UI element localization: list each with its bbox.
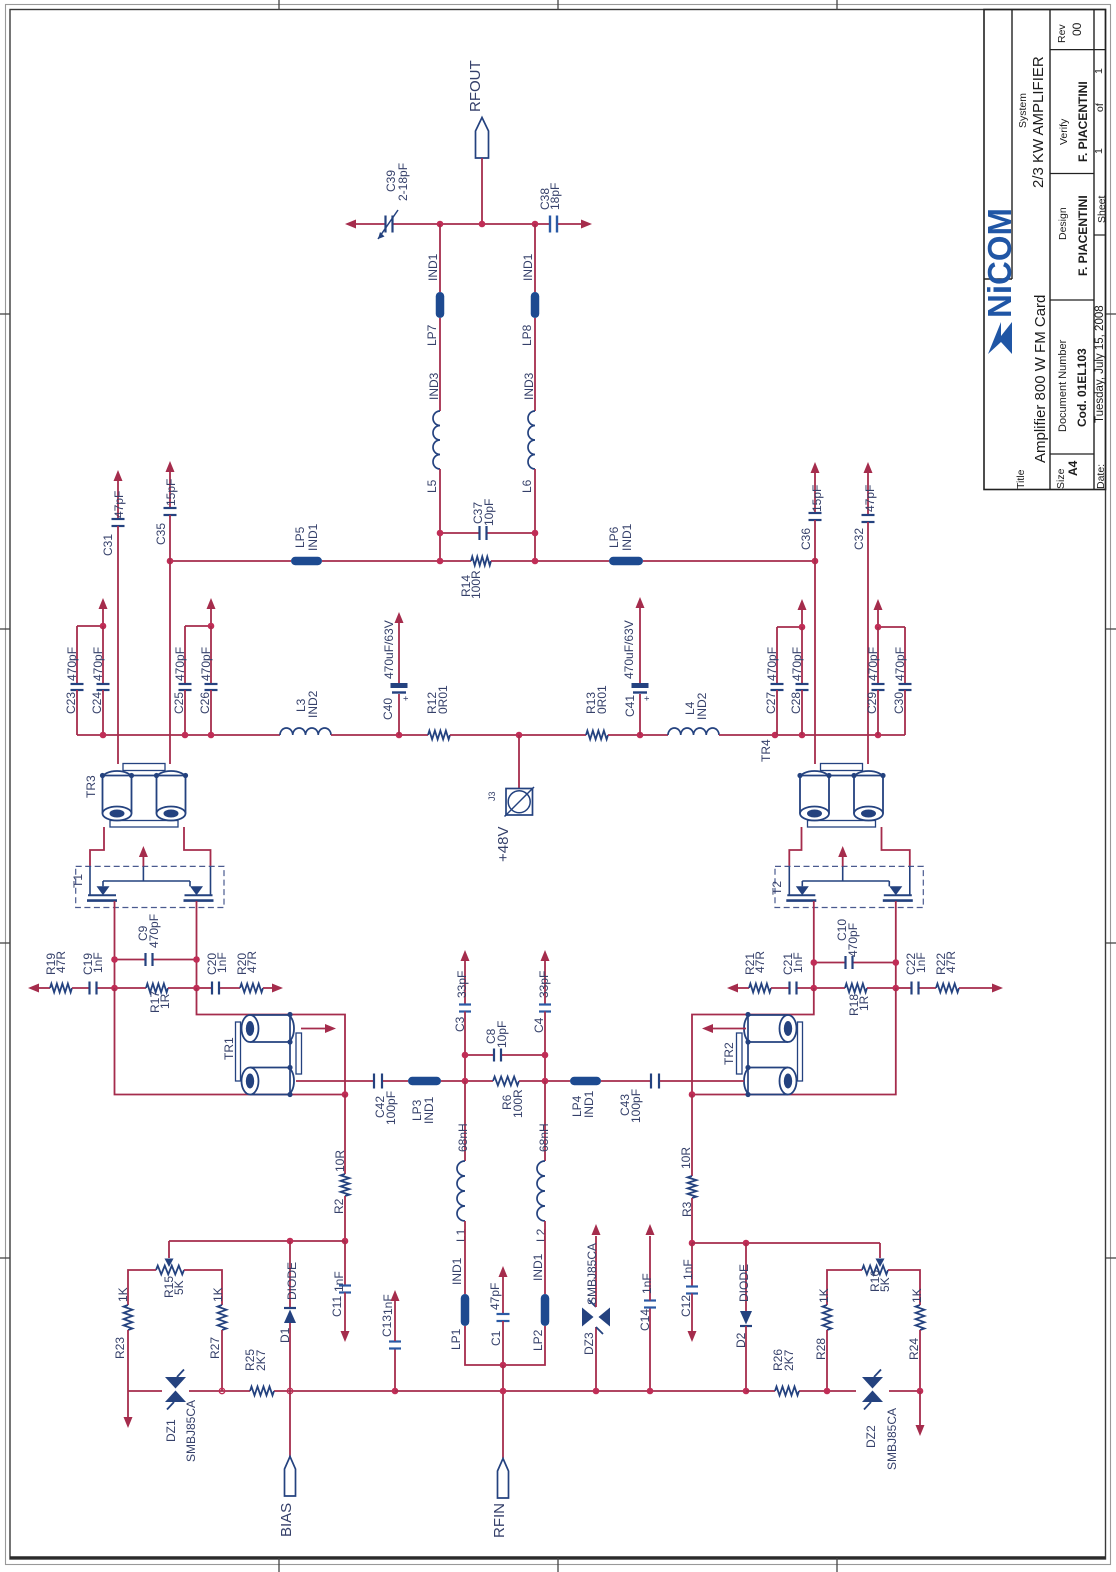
inductor LP8 IND1 — [520, 253, 539, 346]
inductor LP7 IND1 — [425, 253, 444, 346]
inductor L2 68nH — [534, 1123, 551, 1242]
svg-text:47pF: 47pF — [863, 485, 877, 512]
svg-text:1K: 1K — [817, 1288, 831, 1303]
wire L5 lower — [439, 469, 441, 561]
connector BIAS — [278, 1457, 296, 1538]
svg-text:0R01: 0R01 — [595, 685, 609, 714]
resistor R19 47R — [37, 951, 72, 993]
svg-text:LP1: LP1 — [449, 1328, 463, 1350]
svg-text:Document Number: Document Number — [1057, 339, 1069, 432]
svg-text:A4: A4 — [1066, 460, 1080, 476]
capacitor C1 47pF — [488, 1276, 510, 1365]
svg-text:LP2: LP2 — [531, 1329, 545, 1351]
junction dots C37 bridge — [437, 530, 444, 537]
svg-text:1K: 1K — [211, 1287, 225, 1302]
svg-text:68nH: 68nH — [456, 1123, 470, 1152]
power arrow C4 — [541, 950, 550, 961]
svg-text:IND1: IND1 — [450, 1257, 464, 1285]
resistor R18 1R — [814, 984, 896, 1016]
svg-text:SMBJ85CA: SMBJ85CA — [585, 1243, 599, 1305]
svg-text:47R: 47R — [753, 951, 767, 973]
resistor R12 0R01 — [425, 685, 450, 739]
svg-text:Sheet: Sheet — [1096, 195, 1108, 223]
svg-text:of: of — [1094, 103, 1106, 112]
svg-text:F. PIACENTINI: F. PIACENTINI — [1076, 81, 1090, 162]
transformer TR3 — [84, 764, 188, 828]
svg-text:100pF: 100pF — [384, 1091, 398, 1125]
svg-text:Verify: Verify — [1058, 118, 1070, 145]
connector RFIN — [491, 1459, 509, 1539]
svg-text:470pF: 470pF — [147, 914, 161, 948]
node left row arrow W — [28, 984, 39, 993]
wire T1 left source to TR1 bottom — [115, 988, 346, 1095]
wire L5 branch upper — [439, 224, 441, 292]
wire LP2 to input node — [503, 1326, 545, 1365]
wire TR3 to T1 gates — [90, 827, 211, 866]
svg-text:IND3: IND3 — [427, 372, 441, 400]
junction dot D2 top — [743, 1240, 750, 1247]
wire RFIN stem — [502, 1365, 504, 1458]
svg-text:C3: C3 — [453, 1016, 467, 1032]
power arrow T1 drain — [139, 846, 148, 866]
capacitor C20 1nF — [197, 952, 241, 994]
svg-text:470pF: 470pF — [790, 647, 804, 681]
svg-text:LP5: LP5 — [293, 526, 307, 548]
wire C27 C28 top link — [777, 627, 802, 684]
svg-text:Tuesday, July 15, 2008: Tuesday, July 15, 2008 — [1094, 305, 1106, 423]
svg-text:+: + — [642, 696, 652, 701]
junction dot C13 — [392, 1388, 399, 1395]
svg-text:1nF: 1nF — [914, 952, 928, 973]
svg-text:15pF: 15pF — [810, 485, 824, 512]
wire C25 C26 top link — [185, 626, 211, 684]
capacitor C12 1nF — [679, 1243, 698, 1331]
svg-text:SMBJ85CA: SMBJ85CA — [885, 1408, 899, 1470]
power arrow C32 — [864, 462, 873, 473]
capacitor C22 1nF — [896, 952, 936, 994]
resistor R13 0R01 — [584, 685, 609, 739]
capacitor C21 1nF — [771, 952, 814, 994]
node TR1 tap arrow — [301, 1024, 336, 1033]
svg-text:47R: 47R — [944, 951, 958, 973]
wire T1 right source to TR1 top — [197, 988, 346, 1095]
wire L6 lower — [534, 469, 536, 561]
svg-text:470uF/63V: 470uF/63V — [382, 620, 396, 679]
inductor LP3 IND1 — [408, 1077, 441, 1124]
wire T2 left source to TR2 top — [692, 988, 814, 1095]
transformer TR2 — [722, 1012, 803, 1097]
svg-text:10R: 10R — [679, 1147, 693, 1169]
power arrow C35 — [166, 461, 175, 472]
svg-text:NiCOM: NiCOM — [981, 208, 1018, 318]
capacitor C9 470pF — [115, 914, 197, 966]
svg-text:C24: C24 — [90, 692, 104, 714]
svg-text:DZ3: DZ3 — [582, 1332, 596, 1355]
svg-text:2K7: 2K7 — [782, 1349, 796, 1371]
capacitor C39 2-18pF trimmer — [378, 163, 410, 239]
power arrow C36 — [811, 462, 820, 473]
wire C36 to TR4 — [814, 520, 816, 764]
svg-text:RFIN: RFIN — [491, 1503, 508, 1538]
wire C35 to TR3 — [169, 515, 171, 764]
svg-text:C12: C12 — [679, 1295, 693, 1317]
svg-text:47pF: 47pF — [488, 1283, 502, 1310]
svg-text:470pF: 470pF — [91, 647, 105, 681]
svg-text:DZ1: DZ1 — [164, 1419, 178, 1442]
node R27 bottom ring — [219, 1388, 224, 1393]
junction dots C9 row — [111, 956, 118, 963]
svg-text:Design: Design — [1057, 207, 1069, 240]
junction dot R24 bottom — [917, 1388, 924, 1395]
wire zener bus right — [746, 1390, 920, 1392]
wire T1 left source — [114, 901, 116, 988]
power arrow C31 — [114, 470, 123, 481]
svg-text:SMBJ85CA: SMBJ85CA — [184, 1400, 198, 1462]
capacitor C23 470pF — [64, 647, 84, 735]
power arrow C3 — [461, 950, 470, 961]
capacitor C42 100pF — [373, 1074, 398, 1126]
capacitor C31 47pF — [101, 480, 126, 556]
svg-text:DIODE: DIODE — [285, 1262, 299, 1300]
svg-text:470pF: 470pF — [173, 647, 187, 681]
svg-text:RFOUT: RFOUT — [467, 60, 484, 112]
resistor R2 10R — [332, 1095, 349, 1242]
junction dot C26 top — [208, 623, 215, 630]
svg-text:T2: T2 — [770, 881, 784, 895]
wire C29 C30 top link — [878, 627, 905, 684]
wire R12 to R13 — [450, 734, 586, 736]
svg-text:C11: C11 — [330, 1296, 344, 1317]
wire L1 to LP1 — [464, 1221, 466, 1294]
svg-text:C27: C27 — [764, 692, 778, 714]
svg-text:Amplifier 800 W FM Card: Amplifier 800 W FM Card — [1032, 295, 1049, 463]
inductor LP6 IND1 — [607, 523, 643, 565]
wire C23 C24 top link — [77, 626, 103, 684]
svg-text:IND1: IND1 — [521, 253, 535, 281]
svg-text:33pF: 33pF — [455, 971, 469, 998]
capacitor C29 470pF — [865, 627, 885, 735]
inductor L3 IND2 — [280, 690, 331, 735]
svg-text:1K: 1K — [116, 1287, 130, 1302]
junction dot C29 top — [875, 624, 882, 631]
wire LP8 to L6 — [534, 318, 536, 411]
power arrow C12 down — [688, 1331, 697, 1342]
capacitor C40 470uF/63V — [381, 620, 411, 735]
svg-text:L6: L6 — [520, 479, 534, 493]
wire C37 bridge — [440, 532, 535, 534]
svg-text:100R: 100R — [469, 570, 483, 599]
wire drain bus left — [170, 560, 471, 562]
resistor R17 1R — [115, 984, 197, 1013]
zener DZ3 SMBJ85CA — [582, 1236, 610, 1391]
power arrow left bias down — [124, 1391, 133, 1428]
wire L2 to LP2 — [544, 1221, 546, 1294]
svg-text:IND1: IND1 — [531, 1253, 545, 1281]
svg-text:C14: C14 — [638, 1309, 652, 1331]
zener DZ2 SMBJ85CA — [862, 1370, 899, 1471]
junction dot DZ3 — [593, 1388, 600, 1395]
svg-text:TR2: TR2 — [722, 1042, 736, 1065]
capacitor C28 470pF — [789, 627, 809, 735]
wire R14 to LP6 — [491, 560, 609, 562]
capacitor C3 33pF — [453, 960, 471, 1055]
capacitor C36 15pF — [799, 472, 824, 550]
wire C32 to TR4 — [867, 522, 869, 764]
transformer TR1 — [222, 1012, 302, 1097]
svg-text:1: 1 — [1093, 148, 1105, 154]
junction dots supply bus — [100, 732, 107, 739]
svg-text:C28: C28 — [789, 692, 803, 714]
svg-text:Date:: Date: — [1095, 464, 1107, 489]
svg-text:C26: C26 — [198, 692, 212, 714]
resistor R21 47R — [736, 951, 771, 993]
capacitor C32 47pF — [852, 472, 877, 550]
svg-text:10pF: 10pF — [482, 499, 496, 526]
wire LP3 to R6 — [441, 1080, 493, 1082]
node BIAS ring — [287, 1388, 292, 1393]
resistor R27 1K — [208, 1287, 226, 1391]
svg-text:J3: J3 — [487, 791, 497, 801]
svg-text:C35: C35 — [154, 523, 168, 545]
wire zener bus center — [395, 1390, 746, 1392]
svg-text:1nF: 1nF — [215, 952, 229, 973]
inductor LP5 IND1 — [291, 523, 322, 565]
power arrow C26 top — [207, 598, 216, 626]
junction dot TR1 output — [342, 1091, 349, 1098]
power arrow C1 — [499, 1266, 508, 1277]
resistor R20 47R — [235, 951, 279, 993]
wire bias top right — [692, 1242, 880, 1244]
resistor R6 100R — [493, 1077, 525, 1118]
svg-text:LP6: LP6 — [607, 526, 621, 548]
svg-text:IND1: IND1 — [426, 253, 440, 281]
junction dots drain bus — [167, 558, 174, 565]
connector J3 +48V — [487, 735, 534, 862]
svg-text:+48V: +48V — [495, 827, 512, 862]
svg-text:C31: C31 — [101, 534, 115, 556]
junction dot TR2 output — [689, 1091, 696, 1098]
resistor R24 1K — [907, 1288, 924, 1391]
svg-text:2-18pF: 2-18pF — [396, 163, 410, 201]
svg-text:470uF/63V: 470uF/63V — [622, 620, 636, 679]
svg-text:TR1: TR1 — [222, 1037, 236, 1060]
power arrow DZ3 up — [592, 1224, 601, 1235]
svg-text:1nF: 1nF — [791, 952, 805, 973]
wire BIAS stem — [289, 1391, 291, 1457]
wire C43 to TR2 — [660, 1080, 744, 1082]
inductor L5 IND3 — [425, 372, 441, 493]
svg-text:470pF: 470pF — [846, 923, 860, 957]
inductor L4 IND2 — [668, 692, 719, 735]
svg-text:T1: T1 — [71, 874, 85, 888]
title block — [984, 10, 1106, 490]
svg-text:L2: L2 — [534, 1228, 548, 1242]
inductor L1 68nH — [454, 1123, 470, 1242]
wire R6 node to L1 — [464, 1081, 466, 1161]
node left row arrow E — [272, 984, 283, 993]
wire R13 to L4 — [608, 734, 668, 736]
svg-text:C25: C25 — [172, 692, 186, 714]
resistor R25 2K7 — [243, 1349, 274, 1396]
resistor R23 1K — [113, 1287, 132, 1391]
svg-text:R27: R27 — [208, 1337, 222, 1359]
junction dot D2 bottom — [743, 1388, 750, 1395]
svg-text:D1: D1 — [278, 1327, 292, 1343]
svg-text:10R: 10R — [333, 1150, 347, 1172]
resistor R26 2K7 — [771, 1349, 799, 1396]
svg-text:IND2: IND2 — [695, 692, 709, 720]
svg-text:R24: R24 — [907, 1338, 921, 1360]
junction dots output bus — [437, 221, 444, 228]
diode D1 — [278, 1241, 299, 1391]
diode D2 — [734, 1243, 752, 1391]
svg-text:5K: 5K — [878, 1277, 892, 1292]
wire R15 left to R23 — [128, 1270, 156, 1305]
wire R16 left to R28 — [827, 1270, 862, 1305]
power arrow C24 top — [99, 598, 108, 626]
svg-text:1nF: 1nF — [332, 1271, 346, 1292]
svg-text:1R: 1R — [857, 995, 871, 1011]
svg-text:470pF: 470pF — [866, 647, 880, 681]
wire C3 node to R6 node — [464, 1055, 466, 1081]
capacitor C13 1nF — [380, 1294, 401, 1391]
svg-text:C32: C32 — [852, 528, 866, 550]
wire bias top left — [169, 1240, 345, 1242]
titleblock text — [1015, 22, 1108, 489]
capacitor C4 33pF — [532, 960, 551, 1055]
svg-text:33pF: 33pF — [537, 971, 551, 998]
inductor LP2 IND1 — [531, 1253, 549, 1351]
svg-text:C23: C23 — [64, 692, 78, 714]
junction dots left row — [111, 985, 118, 992]
svg-text:C29: C29 — [865, 692, 879, 714]
junction dot RFIN crossing — [500, 1388, 507, 1395]
svg-text:DZ2: DZ2 — [864, 1425, 878, 1448]
capacitor C14 1nF — [638, 1236, 656, 1391]
node TR2 tap arrow — [702, 1024, 746, 1033]
trimmer R15 5K — [156, 1241, 186, 1298]
svg-text:C30: C30 — [892, 692, 906, 714]
svg-text:C41: C41 — [623, 695, 637, 717]
svg-text:R23: R23 — [113, 1337, 127, 1359]
svg-text:IND2: IND2 — [306, 690, 320, 718]
trimmer R16 5K — [862, 1243, 892, 1292]
svg-text:18pF: 18pF — [548, 183, 562, 210]
wire T2 right source to TR2 bottom — [692, 988, 896, 1095]
junction dots interstage — [462, 1052, 469, 1059]
svg-text:Cod. 01EL103: Cod. 01EL103 — [1075, 348, 1089, 427]
resistor R22 47R — [934, 951, 999, 993]
svg-text:IND3: IND3 — [522, 372, 536, 400]
power arrow C41 — [636, 597, 645, 608]
power arrow right bias down — [916, 1391, 925, 1436]
svg-text:47R: 47R — [54, 951, 68, 973]
node output bus left arrow — [345, 220, 356, 229]
wire L3 to R12 — [331, 734, 428, 736]
svg-text:R28: R28 — [814, 1338, 828, 1360]
svg-text:TR3: TR3 — [84, 775, 98, 798]
svg-text:5K: 5K — [172, 1280, 186, 1295]
svg-text:2/3 KW AMPLIFIER: 2/3 KW AMPLIFIER — [1030, 56, 1047, 188]
capacitor C27 470pF — [764, 647, 784, 735]
svg-text:470pF: 470pF — [765, 647, 779, 681]
power arrow C40 — [395, 612, 404, 623]
capacitor C19 1nF — [72, 952, 115, 994]
svg-text:1nF: 1nF — [91, 952, 105, 973]
junction dot C28 top — [799, 624, 806, 631]
capacitor C24 470pF — [90, 626, 110, 735]
wire C4 node to R6 node — [544, 1055, 546, 1081]
power arrow C11 down — [341, 1331, 350, 1342]
transistor T2 dual MOSFET — [770, 866, 923, 907]
svg-text:TR4: TR4 — [759, 739, 773, 762]
svg-text:System: System — [1017, 93, 1029, 128]
svg-text:0R01: 0R01 — [436, 685, 450, 714]
capacitor C8 10pF — [465, 1021, 545, 1062]
wire T2 left source — [813, 901, 815, 988]
wire R15 right to R27 — [184, 1270, 222, 1305]
svg-text:Rev: Rev — [1056, 24, 1068, 43]
wire TR1 to C42 — [296, 1080, 373, 1082]
svg-text:BIAS: BIAS — [278, 1503, 295, 1537]
wire LP6 to C36 node — [643, 560, 815, 562]
wire LP7 to L5 — [439, 318, 441, 411]
svg-text:47R: 47R — [245, 951, 259, 973]
junction dots C10 row — [811, 959, 818, 966]
power arrow C29 top — [874, 599, 883, 627]
resistor R28 1K — [814, 1288, 831, 1391]
svg-text:C4: C4 — [532, 1017, 546, 1033]
inductor LP4 IND1 — [570, 1077, 601, 1118]
svg-text:68nH: 68nH — [537, 1123, 551, 1152]
svg-text:C36: C36 — [799, 528, 813, 550]
wire L6 branch upper — [534, 224, 536, 292]
svg-text:LP7: LP7 — [425, 324, 439, 346]
wire zener bus left — [128, 1390, 395, 1392]
wire C4 node to L2 — [544, 1081, 546, 1161]
svg-text:00: 00 — [1070, 22, 1084, 36]
capacitor C43 100pF — [618, 1074, 659, 1124]
junction dot C24 top — [100, 623, 107, 630]
capacitor C30 470pF — [892, 647, 912, 735]
wire LP1 to input node — [465, 1326, 503, 1365]
capacitor C11 1nF — [330, 1241, 351, 1331]
power arrow C13 up — [391, 1290, 400, 1301]
transistor T1 dual MOSFET — [71, 866, 224, 907]
svg-text:15pF: 15pF — [164, 479, 178, 506]
junction dot C14 — [647, 1388, 654, 1395]
zener DZ1 SMBJ85CA — [164, 1370, 198, 1463]
resistor R14 100R — [459, 557, 491, 599]
capacitor C26 470pF — [198, 626, 218, 735]
wire LP4 to C43 — [601, 1080, 650, 1082]
connector RFOUT — [467, 60, 489, 158]
junction dot input node — [500, 1362, 507, 1369]
svg-text:470pF: 470pF — [199, 647, 213, 681]
svg-text:100pF: 100pF — [629, 1089, 643, 1123]
resistor R3 10R — [679, 1095, 696, 1244]
NICOM logo — [981, 208, 1018, 354]
svg-text:470pF: 470pF — [65, 647, 79, 681]
wire R6 to LP4 — [519, 1080, 570, 1082]
svg-text:1: 1 — [1093, 68, 1105, 74]
svg-text:LP8: LP8 — [520, 324, 534, 346]
junction dot R28 bottom — [824, 1388, 831, 1395]
power arrow T2 drain — [838, 846, 847, 866]
svg-text:C13: C13 — [380, 1315, 394, 1337]
node right row arrow E — [992, 984, 1003, 993]
svg-text:R2: R2 — [332, 1198, 346, 1214]
